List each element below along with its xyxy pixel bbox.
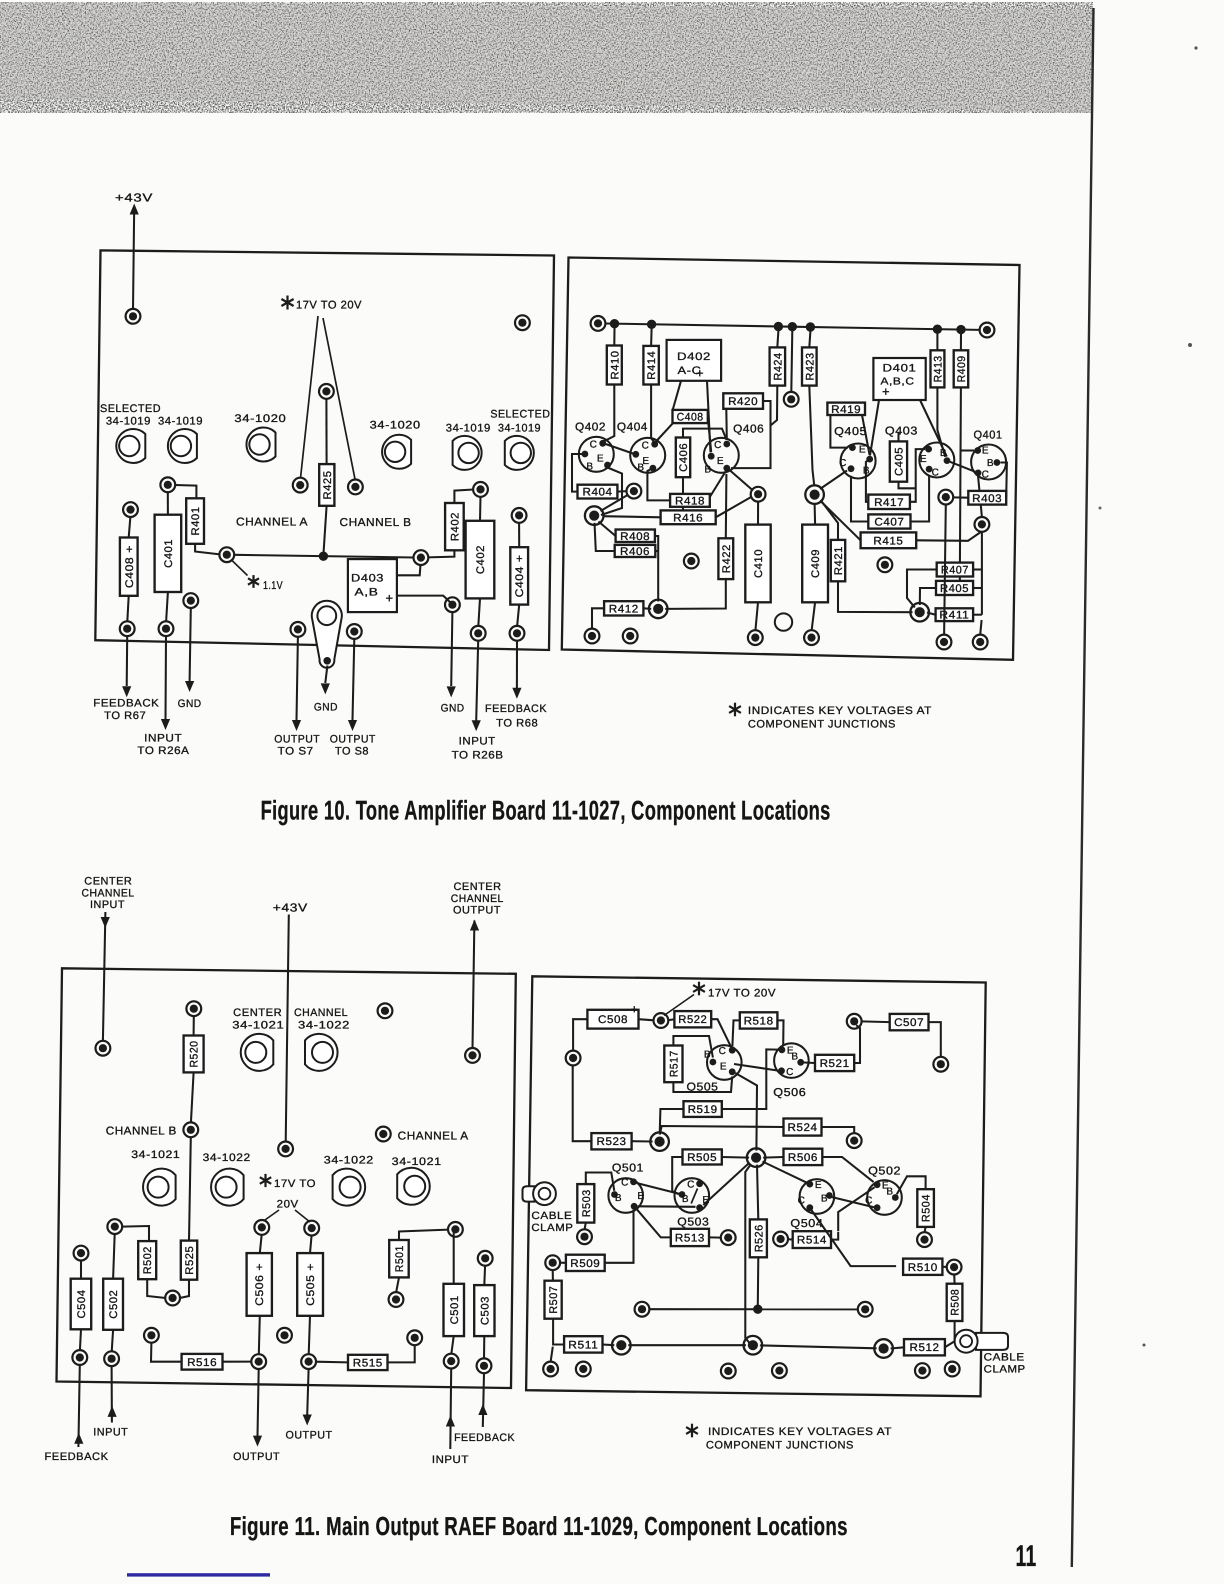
svg-text:FEEDBACK: FEEDBACK <box>454 1432 515 1444</box>
svg-text:20V: 20V <box>277 1198 299 1210</box>
capacitor C506 <box>247 1253 272 1316</box>
pad feedback left <box>72 1350 87 1365</box>
wire bus to R424 <box>777 331 778 348</box>
svg-text:B: B <box>637 463 644 474</box>
wire R505 left down <box>672 1157 682 1194</box>
wire C405 bottom <box>899 482 916 489</box>
capacitor C407 <box>868 514 910 528</box>
svg-text:R404: R404 <box>583 487 613 499</box>
board outline fig11 left <box>57 968 516 1388</box>
wire bus to R413 <box>936 333 938 350</box>
wire R420 right loop to Q406 E <box>731 401 771 468</box>
wire Q401 E left <box>960 449 974 451</box>
wire C401 bottom <box>166 592 168 622</box>
cable clamp right <box>955 1330 1008 1353</box>
svg-text:TO R26A: TO R26A <box>137 745 189 757</box>
wire R522 right to Q505 C <box>711 1019 731 1047</box>
svg-text:R421: R421 <box>833 546 845 575</box>
svg-text:OUTPUT: OUTPUT <box>286 1430 333 1442</box>
wire R412 right to junction <box>643 607 651 610</box>
pad channel A output node <box>293 478 308 493</box>
resistor R517 <box>664 1046 682 1083</box>
wire C409 top <box>814 504 817 525</box>
socket 34-1020 third <box>246 428 275 462</box>
svg-text:34-1020: 34-1020 <box>370 419 421 431</box>
svg-text:B: B <box>821 1194 828 1205</box>
svg-text:OUTPUT: OUTPUT <box>453 905 501 917</box>
svg-text:TO R26B: TO R26B <box>452 749 504 761</box>
junction on center bus <box>319 552 328 561</box>
wire C508 right <box>639 1019 654 1020</box>
wire junction to Q503 E <box>703 1163 749 1205</box>
svg-text:R506: R506 <box>788 1152 818 1164</box>
wire R506 left <box>763 1156 783 1159</box>
resistor R410 <box>607 346 622 385</box>
wire junction <box>774 322 783 331</box>
wire R423 to junction <box>809 386 814 486</box>
resistor R418 <box>670 494 710 508</box>
wire R425 bottom to bus <box>324 506 327 552</box>
wire C409 bottom <box>812 602 816 630</box>
wire R524 left <box>660 1126 784 1135</box>
resistor R503 <box>577 1184 594 1223</box>
pad mid isolated <box>277 1328 292 1343</box>
pad input to R26B <box>471 626 486 641</box>
svg-text:R518: R518 <box>744 1015 774 1027</box>
svg-text:C402: C402 <box>475 545 487 574</box>
transistor Q402 <box>579 437 614 473</box>
lead output to S8 <box>353 639 355 720</box>
resistor R516 <box>182 1354 223 1370</box>
wire R501 bottom <box>396 1277 399 1292</box>
pad R520 top <box>186 1001 201 1016</box>
pad fig11r bottom 2 <box>576 1362 591 1377</box>
svg-text:B: B <box>791 1052 798 1063</box>
svg-text:R525: R525 <box>184 1246 196 1275</box>
svg-text:R416: R416 <box>673 512 703 524</box>
socket 34-1022 bottom2 <box>211 1169 244 1206</box>
pad R425 top <box>319 384 334 399</box>
wire junction down long <box>745 1164 751 1344</box>
svg-text:R505: R505 <box>687 1152 717 1164</box>
junction pad R511 <box>612 1336 631 1355</box>
wire D402 to C408 <box>673 381 681 410</box>
lead feedback right fig11 <box>483 1373 484 1427</box>
svg-text:OUTPUT: OUTPUT <box>233 1451 280 1463</box>
svg-text:Q403: Q403 <box>885 426 918 438</box>
wire R508 top <box>953 1274 955 1284</box>
svg-text:R417: R417 <box>874 497 904 509</box>
wire R504 top to Q502 B <box>897 1176 926 1194</box>
wire C408 top <box>129 517 131 538</box>
resistor R407 <box>937 563 973 577</box>
svg-text:B: B <box>704 465 711 476</box>
svg-text:COMPONENT JUNCTIONS: COMPONENT JUNCTIONS <box>706 1439 854 1451</box>
wire C408 bottom <box>127 596 128 622</box>
capacitor C408 <box>120 538 138 596</box>
wire junction up to Q505 E <box>735 1073 757 1151</box>
pad C507 left <box>847 1014 862 1029</box>
wire R509 left <box>560 1262 566 1264</box>
wire C407 left to Q405 C <box>851 476 868 522</box>
svg-text:C: C <box>590 440 598 451</box>
svg-text:C408 +: C408 + <box>124 545 136 588</box>
svg-text:34-1019: 34-1019 <box>446 423 491 435</box>
pad R502 top <box>107 1219 122 1234</box>
resistor R406 <box>615 545 656 558</box>
pad bus right <box>414 550 429 565</box>
junction long wire <box>753 1305 762 1314</box>
wire junction <box>956 325 965 334</box>
svg-text:11: 11 <box>1016 1540 1037 1573</box>
svg-text:B: B <box>615 1193 622 1204</box>
wire Q504 B to Q502 C <box>832 1197 875 1207</box>
lead input left fig11 <box>111 1366 113 1422</box>
wire C503 top <box>483 1265 486 1285</box>
pad output to S7 <box>291 622 306 637</box>
wire junction <box>806 322 815 331</box>
svg-text:OUTPUT: OUTPUT <box>274 733 320 745</box>
pad long wire right <box>858 1302 873 1317</box>
svg-text:CABLE: CABLE <box>531 1210 572 1222</box>
svg-text:R424: R424 <box>772 353 784 381</box>
resistor R502 <box>138 1241 156 1279</box>
wire R515 right <box>388 1345 415 1363</box>
resistor R501 <box>389 1240 409 1277</box>
pad bus left end <box>591 316 606 331</box>
svg-text:R515: R515 <box>353 1357 383 1369</box>
wire C504 bottom <box>80 1329 81 1350</box>
resistor R421 <box>831 540 845 581</box>
pad top right <box>515 315 530 330</box>
svg-text:CLAMP: CLAMP <box>531 1222 573 1234</box>
wire C410 bottom <box>755 602 758 630</box>
svg-text:B: B <box>586 462 593 473</box>
pad center channel input <box>96 1041 111 1056</box>
svg-text:CHANNEL: CHANNEL <box>82 888 135 900</box>
wire C503 bottom <box>483 1336 485 1359</box>
wire R502 bottom <box>147 1279 166 1298</box>
svg-text:34-1022: 34-1022 <box>203 1152 251 1164</box>
pad C503 top <box>478 1251 493 1266</box>
wire R505 right <box>722 1156 749 1159</box>
dust speck 5 <box>1194 46 1197 49</box>
junction pad bottom center <box>744 1336 763 1355</box>
pad channel B output node <box>348 480 363 495</box>
svg-text:CHANNEL B: CHANNEL B <box>106 1126 177 1138</box>
pad C404 top <box>512 508 527 523</box>
svg-text:R513: R513 <box>675 1232 705 1244</box>
svg-text:C: C <box>719 1046 727 1057</box>
resistor R523 <box>591 1133 631 1149</box>
svg-text:INDICATES KEY VOLTAGES AT: INDICATES KEY VOLTAGES AT <box>748 705 932 717</box>
pad channel A <box>376 1127 391 1142</box>
wire R402 bottom <box>428 550 455 557</box>
wire R417 right to Q403 E <box>910 449 925 502</box>
svg-text:E: E <box>702 1195 709 1206</box>
wire R520 bottom <box>191 1072 194 1123</box>
wire C507 left <box>861 1020 890 1023</box>
svg-text:Q502: Q502 <box>868 1166 901 1178</box>
wire R523 right <box>632 1140 653 1142</box>
lead center channel output <box>473 921 475 1049</box>
svg-text:C506 +: C506 + <box>254 1263 266 1306</box>
pad bottom 2 <box>623 629 638 644</box>
svg-text:GND: GND <box>441 702 465 714</box>
pad R509 left <box>545 1255 560 1270</box>
pad long wire left <box>635 1302 650 1317</box>
wire C508 left <box>573 1019 587 1051</box>
resistor R402 <box>445 503 464 550</box>
central junction pad <box>747 1148 766 1167</box>
svg-text:B: B <box>704 1050 711 1061</box>
svg-text:C: C <box>932 468 940 479</box>
svg-text:R502: R502 <box>142 1246 154 1274</box>
capacitor C404 <box>510 547 528 604</box>
pad below bus <box>784 392 799 407</box>
wire R413 to Q403 <box>937 387 945 456</box>
wire R513 right <box>709 1236 721 1238</box>
svg-text:GND: GND <box>178 698 202 710</box>
resistor R401 <box>186 498 204 544</box>
pad C505 top <box>304 1221 319 1236</box>
resistor R417 <box>868 495 910 509</box>
diode pack D401 A,B,C <box>873 358 925 400</box>
wire R406 right <box>655 550 658 552</box>
wire C410 top <box>757 501 759 524</box>
svg-text:R520: R520 <box>189 1041 201 1068</box>
svg-text:34-1021: 34-1021 <box>392 1156 442 1168</box>
wire R503 bottom <box>585 1223 586 1230</box>
wire R519 right to Q506 E <box>722 1049 778 1109</box>
svg-text:SELECTED: SELECTED <box>490 408 550 420</box>
capacitor C507 <box>890 1014 929 1030</box>
wire C406 top <box>683 429 727 440</box>
wire R419 left to Q405 E <box>830 415 848 448</box>
pad R501/C501 top <box>448 1222 463 1237</box>
wire R506 right to Q502 E <box>822 1157 873 1182</box>
resistor R526 <box>750 1219 767 1257</box>
wire bus to R409 <box>960 334 962 351</box>
pad bus left / 1.1V test node <box>219 547 234 562</box>
svg-text:E: E <box>920 454 927 465</box>
wire C404 top <box>518 522 520 547</box>
wire junction to Q504 E <box>763 1162 807 1183</box>
capacitor C501 <box>444 1284 465 1336</box>
svg-text:R501: R501 <box>394 1245 406 1272</box>
blue pen mark bottom left <box>127 1573 270 1576</box>
pad feedback to R68 <box>510 626 525 641</box>
svg-text:C406: C406 <box>678 443 690 472</box>
wire R521 left to Q506 B <box>804 1061 815 1064</box>
lead feedback left fig11 <box>78 1365 79 1447</box>
svg-text:COMPONENT JUNCTIONS: COMPONENT JUNCTIONS <box>748 719 896 731</box>
callout leg to right pad <box>323 318 355 480</box>
svg-text:INPUT: INPUT <box>459 735 496 747</box>
svg-text:Q505: Q505 <box>687 1082 719 1094</box>
lead gnd left <box>190 608 191 681</box>
svg-text:CENTER: CENTER <box>454 881 502 893</box>
resistor R408 <box>616 530 655 543</box>
wire R406 left up <box>595 523 615 551</box>
wire R508 bottom <box>954 1321 956 1341</box>
resistor R423 <box>802 347 817 385</box>
svg-text:R526: R526 <box>753 1224 765 1252</box>
transistor Q406 <box>704 438 739 476</box>
wire C407 right to Q403 C <box>911 476 930 522</box>
mounting hole with solder lug <box>312 601 342 668</box>
svg-text:R523: R523 <box>597 1136 627 1148</box>
svg-text:C504: C504 <box>76 1290 88 1319</box>
diode pack D403 A,B <box>348 559 397 612</box>
svg-text:C404 +: C404 + <box>514 554 526 597</box>
svg-text:17V TO 20V: 17V TO 20V <box>296 300 362 312</box>
resistor R512 <box>904 1339 945 1355</box>
wire Q403 B to Q401 C <box>950 462 975 472</box>
wire R503 top to Q501 B <box>586 1173 615 1191</box>
pad center channel output <box>465 1048 480 1063</box>
wire R417 left to Q405 B <box>866 460 869 502</box>
pad R501 bottom <box>389 1292 404 1307</box>
wire R416 right diagonal <box>716 497 752 518</box>
resistor R411 <box>936 608 974 621</box>
svg-text:+: + <box>696 366 704 381</box>
pad fig11r bottom 4 <box>772 1363 787 1378</box>
transistor Q501 <box>608 1178 644 1213</box>
svg-text:17V TO 20V: 17V TO 20V <box>708 988 776 1000</box>
wire R512 right to clamp <box>945 1341 955 1347</box>
pad R516 left <box>144 1328 159 1343</box>
svg-text:Q401: Q401 <box>974 430 1003 442</box>
wire C408 to Q406 B <box>708 418 711 453</box>
resistor R416 <box>661 510 716 524</box>
svg-text:R420: R420 <box>728 396 758 408</box>
svg-text:CENTER: CENTER <box>84 876 132 888</box>
wire pad6 up <box>980 620 981 635</box>
pad gnd left <box>183 593 198 608</box>
capacitor C409 <box>802 525 828 603</box>
wire R516 right <box>223 1361 252 1363</box>
wire C505 bottom <box>309 1316 310 1355</box>
wire R518 right to Q506 E <box>777 1020 783 1045</box>
svg-text:R511: R511 <box>568 1339 598 1351</box>
svg-text:INPUT: INPUT <box>90 899 125 911</box>
pad C506 top <box>254 1220 269 1235</box>
svg-text:Q405: Q405 <box>834 426 867 438</box>
wire Q501 E to Q503 <box>638 1205 696 1208</box>
board outline left <box>95 250 554 650</box>
svg-text:34-1019: 34-1019 <box>498 423 541 435</box>
svg-text:C: C <box>714 440 722 451</box>
svg-text:C410: C410 <box>753 549 765 578</box>
svg-text:R516: R516 <box>187 1357 217 1369</box>
scanner noise band at top of page <box>0 2 1093 113</box>
svg-text:R415: R415 <box>873 535 903 547</box>
lead output left fig11 <box>258 1369 259 1436</box>
wire R422 top to Q406 E <box>725 474 728 538</box>
dust speck 2 <box>1099 507 1102 510</box>
svg-text:R402: R402 <box>449 512 461 541</box>
wire R411 left <box>927 613 936 615</box>
wire C402 bottom <box>478 598 480 626</box>
pad R402/C402 top <box>473 482 488 497</box>
svg-text:C407: C407 <box>874 517 904 529</box>
socket 34-1019 selected left <box>116 429 145 463</box>
wire R513 left to Q501 E <box>636 1209 671 1238</box>
capacitor C505 <box>297 1253 323 1316</box>
svg-text:Q406: Q406 <box>733 424 764 436</box>
wire C408 to Q404 C <box>656 423 673 441</box>
svg-text:FEEDBACK: FEEDBACK <box>45 1451 109 1463</box>
asterisk 17V fig11 right <box>693 982 705 996</box>
pad R504 bottom <box>917 1232 932 1247</box>
svg-text:C409: C409 <box>810 549 822 578</box>
resistor R524 <box>784 1119 822 1136</box>
wire bottom run 1 <box>628 1344 746 1346</box>
svg-text:CLAMP: CLAMP <box>984 1364 1026 1376</box>
wire R405 right <box>973 587 982 589</box>
pad left of R403 <box>938 490 953 505</box>
wire R409 down to R405 <box>960 387 973 588</box>
pad R515 right <box>407 1330 422 1345</box>
svg-text:C505 +: C505 + <box>305 1263 317 1306</box>
svg-text:R522: R522 <box>678 1014 707 1026</box>
wire C501 top <box>453 1231 455 1284</box>
board outline right (solder side) <box>562 258 1020 660</box>
pad below Q401 <box>975 517 990 532</box>
wire R421 top to junction <box>821 500 839 540</box>
svg-text:D403: D403 <box>351 573 384 585</box>
lead gnd right <box>451 612 452 686</box>
wire R526 top <box>757 1165 758 1220</box>
capacitor C405 <box>890 441 907 481</box>
svg-text:D402: D402 <box>677 351 711 363</box>
pad input to R26A <box>159 621 174 636</box>
resistor R412 <box>604 601 643 615</box>
pad C504 top <box>74 1246 89 1261</box>
svg-text:C507: C507 <box>894 1017 924 1029</box>
resistor R420 <box>723 393 763 409</box>
svg-text:R504: R504 <box>921 1194 933 1222</box>
wire R504 bottom <box>925 1227 926 1233</box>
pad R524 right <box>847 1133 862 1148</box>
wire R424 down <box>771 386 778 426</box>
wire C404 bottom <box>517 605 519 627</box>
svg-text:C501: C501 <box>449 1295 461 1324</box>
wire R525 top long <box>189 1137 191 1241</box>
resistor R513 <box>671 1229 709 1246</box>
wire R514 right <box>831 1232 838 1240</box>
svg-text:R517: R517 <box>668 1050 680 1077</box>
pad mid right <box>878 557 893 572</box>
capacitor C504 <box>71 1279 92 1330</box>
cable clamp left <box>523 1182 556 1205</box>
junction pad left cluster <box>585 506 604 525</box>
wire pad to R502 <box>122 1226 149 1241</box>
svg-text:E: E <box>717 456 724 467</box>
dust speck 1 <box>1188 343 1192 347</box>
socket 34-1021 bottom4 <box>397 1168 430 1205</box>
junction pad bottom right <box>874 1339 893 1358</box>
wire bottom run 2 <box>760 1345 877 1348</box>
wire R415 right to pad <box>916 532 981 541</box>
callout line to pad fig11r <box>664 995 694 1016</box>
svg-text:CHANNEL: CHANNEL <box>294 1007 348 1019</box>
svg-text:+43V: +43V <box>273 902 308 915</box>
wire R524 right <box>822 1127 855 1134</box>
svg-text:R510: R510 <box>908 1262 938 1274</box>
pad output to S8 <box>347 624 362 639</box>
